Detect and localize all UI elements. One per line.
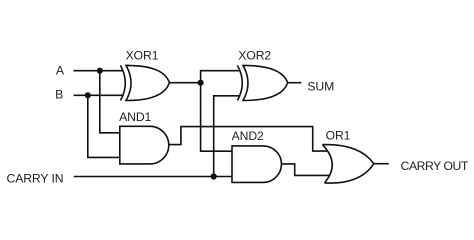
and-gate AND2 body xyxy=(232,146,281,183)
and-gate AND1 body xyxy=(120,126,169,164)
svg-text:B: B xyxy=(55,88,63,102)
wire AND1 output to OR1 top input xyxy=(169,127,328,152)
junction dot on A wire xyxy=(97,68,103,74)
junction dot on B wire xyxy=(85,92,91,98)
svg-text:SUM: SUM xyxy=(307,80,334,94)
svg-text:CARRY OUT: CARRY OUT xyxy=(401,159,469,173)
svg-text:CARRY IN: CARRY IN xyxy=(7,172,64,186)
node A input wire xyxy=(74,70,124,72)
wire carry-in tap up to XOR2 bottom input xyxy=(214,96,240,177)
svg-text:AND2: AND2 xyxy=(232,129,264,143)
or-gate OR1 top edge xyxy=(322,145,373,164)
junction dot XOR1 output xyxy=(198,80,204,86)
xor-gate XOR2 outer arc xyxy=(237,65,242,100)
xor-gate XOR1 outer arc xyxy=(120,65,125,100)
svg-text:OR1: OR1 xyxy=(326,129,351,143)
xor-gate XOR1 body xyxy=(126,65,169,100)
wire OR1 output to CARRY OUT xyxy=(374,163,389,165)
junction dot CARRY IN xyxy=(211,173,217,179)
xor-gate XOR2 body xyxy=(243,65,288,100)
wire CARRY IN to AND2 bottom input xyxy=(74,176,232,178)
svg-text:XOR2: XOR2 xyxy=(238,49,271,63)
svg-text:A: A xyxy=(56,63,65,77)
or-gate OR1 bottom edge xyxy=(325,164,374,183)
wire junction down to AND2 top input xyxy=(201,83,232,152)
wire junction up to XOR2 top input xyxy=(201,71,240,83)
or-gate OR1 left arc xyxy=(322,145,332,183)
wire AND2 output to OR1 bottom input xyxy=(282,164,330,176)
node B input wire xyxy=(74,94,124,96)
wire A tap down to AND1 top input xyxy=(100,71,120,133)
wire XOR1 output to junction xyxy=(169,82,200,84)
wire XOR2 output to SUM xyxy=(288,82,302,84)
svg-text:XOR1: XOR1 xyxy=(126,49,159,63)
wire B tap down to AND1 bottom input xyxy=(88,95,120,157)
svg-text:AND1: AND1 xyxy=(119,110,151,124)
